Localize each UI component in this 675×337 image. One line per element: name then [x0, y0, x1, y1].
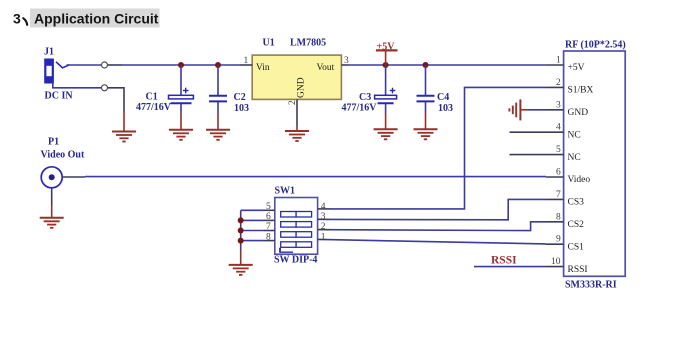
wire: Vout rail to RF pin 1: [349, 64, 547, 66]
node: open pin circle on bottom wire: [102, 85, 108, 91]
svg-text:S1/BX: S1/BX: [568, 86, 594, 96]
svg-text:C1: C1: [146, 92, 158, 103]
svg-text:4: 4: [556, 123, 561, 133]
svg-text:1: 1: [244, 56, 249, 66]
svg-text:3: 3: [344, 56, 349, 66]
svg-text:SW1: SW1: [275, 186, 296, 197]
svg-text:RSSI: RSSI: [491, 255, 517, 267]
svg-text:3: 3: [13, 11, 21, 27]
svg-text:SM333R-RI: SM333R-RI: [565, 280, 617, 291]
wire: SW1 left bus pin6: [241, 219, 264, 221]
svg-text:477/16V: 477/16V: [342, 103, 378, 114]
wire continuing to U1 pin 1: [108, 64, 122, 66]
svg-text:LM7805: LM7805: [290, 38, 326, 49]
svg-text:3: 3: [321, 212, 326, 222]
svg-text:8: 8: [556, 212, 561, 222]
title: 3. Application Circuit: [30, 9, 160, 28]
svg-text:Video Out: Video Out: [41, 150, 85, 161]
ground (P1): [40, 218, 64, 228]
svg-text:DC IN: DC IN: [45, 90, 74, 101]
node: open pin circle on top wire: [102, 62, 108, 68]
connector RF (10P*2.54) SM333R-RI: [564, 40, 626, 291]
svg-text:SW DIP-4: SW DIP-4: [274, 255, 317, 266]
wire: SW1 pin1 to RF pin9 CS1: [318, 238, 327, 240]
svg-text:C3: C3: [359, 92, 371, 103]
svg-text:NC: NC: [568, 153, 581, 163]
svg-text:103: 103: [234, 103, 249, 114]
pin 6 (RF Video): [546, 176, 564, 178]
J1 switch contact: [56, 62, 70, 68]
svg-text:5: 5: [556, 145, 561, 155]
svg-text:477/16V: 477/16V: [136, 102, 172, 113]
capacitor C1 (electrolytic 477/16V): [136, 65, 193, 130]
ground (RF pin3, rotated): [509, 99, 546, 120]
ground (C3): [374, 129, 398, 139]
pin 2 (RF S1/BX): [546, 86, 564, 88]
svg-text:9: 9: [556, 235, 561, 245]
junction at +5V / C3: [383, 62, 389, 68]
svg-text:6: 6: [266, 212, 271, 222]
pin 5 (SW1): [264, 209, 275, 211]
pin 3 (U1 Vout): [341, 64, 348, 66]
wire: SW1 left bus pin7: [241, 230, 264, 232]
svg-text:Vin: Vin: [256, 63, 270, 73]
pin 1 (RF +5V): [546, 64, 564, 66]
wire: P1 to ground: [51, 188, 53, 205]
pin 8 (RF CS2): [546, 221, 564, 223]
connector P1 Video Out: [41, 137, 85, 188]
pin 5 (RF NC): [510, 154, 564, 156]
pin 2 (U1 GND): [296, 99, 298, 126]
pin 7 (RF CS3): [546, 198, 564, 200]
connector J1 (DC jack): [44, 47, 70, 83]
wire: RSSI net to RF pin10: [474, 266, 546, 268]
ground (C4): [414, 129, 438, 139]
junction at C1: [178, 62, 184, 68]
svg-text:P1: P1: [48, 137, 59, 148]
svg-text:+5V: +5V: [568, 63, 585, 73]
svg-text:Vout: Vout: [317, 63, 335, 73]
pin 10 (RF RSSI): [546, 266, 564, 268]
wire: SW1 ground bus vertical: [240, 210, 242, 250]
junction SW bus pin6: [238, 217, 244, 223]
junction SW bus pin8: [238, 238, 244, 244]
ground (SW1 bus): [229, 265, 253, 275]
svg-text:10: 10: [551, 257, 561, 267]
svg-text:3: 3: [556, 100, 561, 110]
wire: P1 to RF pin 6 (Video): [62, 176, 85, 178]
wire: SW1 left bus pin8: [241, 240, 264, 242]
wire down to ground: [108, 88, 124, 112]
svg-text:C2: C2: [234, 92, 246, 103]
svg-text:2: 2: [288, 100, 298, 105]
capacitor C4 (103): [417, 65, 454, 129]
pin 6 (SW1): [264, 219, 275, 221]
svg-text:NC: NC: [568, 130, 581, 140]
svg-text:RF (10P*2.54): RF (10P*2.54): [565, 40, 626, 51]
ground (DC IN return): [112, 132, 136, 142]
junction at C2: [215, 62, 221, 68]
wire: J1 tip to U1 Vin (top rail left): [67, 64, 102, 66]
capacitor C2 (103): [209, 65, 249, 130]
svg-text:1: 1: [556, 56, 561, 66]
ground (C1): [169, 130, 193, 140]
wire: SW1 pin4 to RF pin2 S1/BX: [318, 208, 330, 210]
pin 4 (RF NC): [510, 131, 564, 133]
wire: J1 sleeve lower branch: [53, 82, 102, 88]
svg-text:1: 1: [321, 232, 326, 242]
svg-text:RSSI: RSSI: [568, 265, 588, 275]
svg-text:GND: GND: [297, 77, 307, 98]
junction at C4: [423, 62, 429, 68]
wire: SW1 pin2 to RF pin8 CS2: [318, 229, 330, 231]
svg-text:U1: U1: [263, 38, 275, 49]
ground (C2): [206, 130, 230, 140]
capacitor C3 (electrolytic 477/16V): [342, 65, 397, 129]
svg-text:CS1: CS1: [568, 242, 585, 252]
pin 3 (RF GND): [546, 109, 564, 111]
pin 8 (SW1): [264, 240, 275, 242]
svg-text:8: 8: [266, 232, 271, 242]
pin 1 (U1 Vin): [240, 64, 252, 66]
svg-text:7: 7: [266, 222, 271, 232]
svg-text:Video: Video: [568, 175, 591, 185]
svg-text:Application Circuit: Application Circuit: [34, 11, 159, 27]
svg-text:5: 5: [266, 202, 271, 212]
svg-text:CS2: CS2: [568, 220, 585, 230]
wire: SW1 pin3 to RF pin7 CS3: [318, 218, 330, 220]
svg-text:2: 2: [321, 222, 326, 232]
svg-text:C4: C4: [437, 92, 449, 103]
svg-text:6: 6: [556, 168, 561, 178]
junction SW bus pin7: [238, 228, 244, 234]
ground (U1 pin2): [285, 131, 309, 141]
pin 7 (SW1): [264, 230, 275, 232]
power +5V: [376, 41, 398, 65]
wire: SW1 left bus pin5: [241, 209, 264, 211]
svg-text:7: 7: [556, 190, 561, 200]
svg-text:4: 4: [321, 202, 326, 212]
svg-text:J1: J1: [44, 47, 54, 58]
svg-text:2: 2: [556, 78, 561, 88]
regulator U1 LM7805: [252, 38, 341, 100]
svg-text:CS3: CS3: [568, 198, 585, 208]
switch SW1 SW DIP-4: [274, 186, 318, 266]
svg-text:GND: GND: [568, 108, 589, 118]
pin 9 (RF CS1): [546, 243, 564, 245]
svg-text:103: 103: [438, 103, 453, 114]
